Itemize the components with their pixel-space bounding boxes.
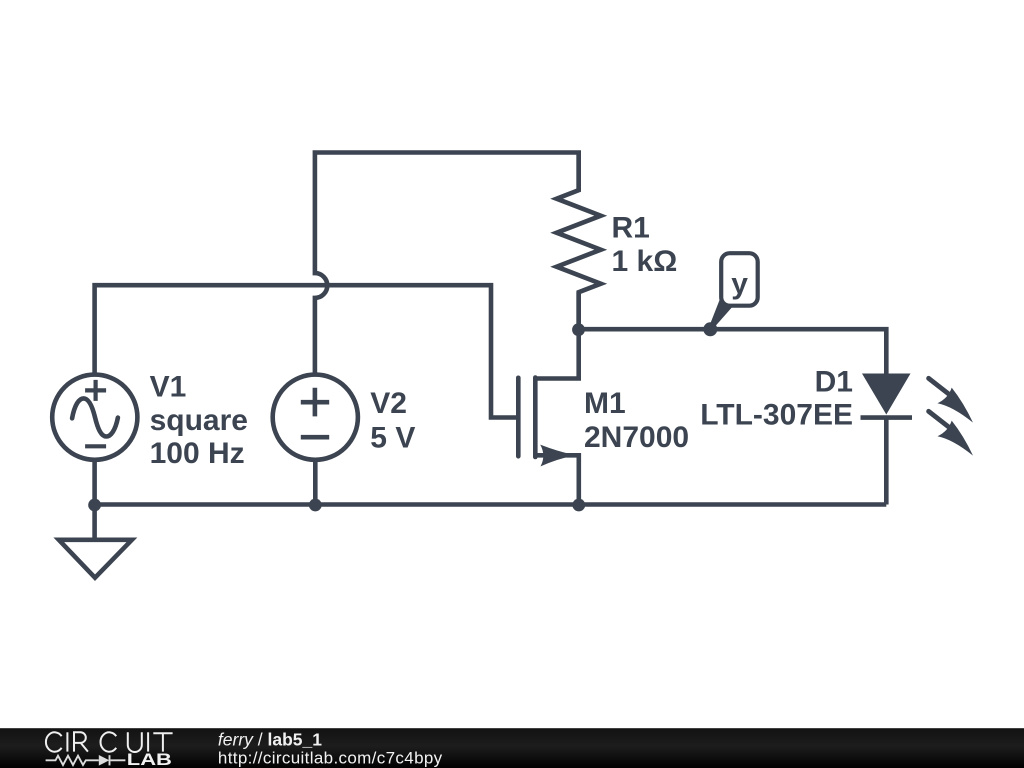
LED D1 triangle <box>862 374 911 415</box>
svg-text:5 V: 5 V <box>370 421 415 454</box>
svg-text:ferry / lab5_1: ferry / lab5_1 <box>218 729 322 749</box>
LED D1 cathode bar <box>861 415 913 420</box>
node flag y <box>709 253 758 330</box>
ground <box>59 540 132 578</box>
transistor M1 channel bar <box>533 378 538 458</box>
node junction V1 / ground rail <box>88 499 101 512</box>
LED D1 light arrow 1 <box>929 378 973 422</box>
wire M1 source lead <box>535 455 579 504</box>
V1 minus sign <box>85 444 106 448</box>
svg-text:M1: M1 <box>584 387 626 420</box>
node junction R1 / M1 drain / node y <box>572 323 585 336</box>
transistor M1 gate bar <box>516 378 521 457</box>
svg-text:100 Hz: 100 Hz <box>150 437 245 470</box>
voltage source V2 circle <box>273 375 358 460</box>
V1 sine symbol <box>72 398 118 436</box>
svg-text:D1: D1 <box>815 366 853 399</box>
node junction V2 / ground rail <box>309 499 322 512</box>
svg-text:LTL-307EE: LTL-307EE <box>700 398 853 431</box>
voltage source V1 circle <box>52 375 137 460</box>
node junction M1 source / ground rail <box>572 499 585 512</box>
svg-text:1 kΩ: 1 kΩ <box>612 245 678 278</box>
node junction flag y pointer <box>703 322 717 336</box>
transistor M1 source arrow <box>540 445 572 467</box>
svg-text:2N7000: 2N7000 <box>584 421 689 454</box>
wire R1 bottom / M1 drain lead <box>535 292 578 378</box>
LED D1 light arrow 2 <box>929 411 973 455</box>
wire top net: R1 top to V2 plus terminal, with hop over gate wire <box>315 153 579 374</box>
svg-text:square: square <box>150 404 248 437</box>
wire node y to LED D1 anode <box>579 329 887 373</box>
wire ground rail <box>95 502 887 507</box>
V2 minus sign <box>301 435 329 440</box>
logo diode triangle <box>99 755 110 766</box>
wire V2 bottom lead <box>313 462 318 505</box>
resistor R1 <box>557 153 601 329</box>
svg-text:R1: R1 <box>612 211 650 244</box>
wire gate net: V1 plus terminal to M1 gate <box>95 285 519 417</box>
wire LED D1 cathode lead <box>884 418 889 505</box>
svg-text:V1: V1 <box>150 371 187 404</box>
V2 plus sign <box>301 388 329 417</box>
svg-text:LAB: LAB <box>127 750 172 768</box>
svg-text:V2: V2 <box>370 387 407 420</box>
logo resistor-diode squiggle <box>46 755 126 765</box>
svg-text:http://circuitlab.com/c7c4bpy: http://circuitlab.com/c7c4bpy <box>218 749 443 768</box>
wire V1 bottom to ground <box>92 462 97 540</box>
V1 plus sign <box>85 380 106 401</box>
svg-text:y: y <box>731 268 748 301</box>
CircuitLab watermark bar <box>0 728 1024 768</box>
logo wordmark CIRCUIT <box>46 732 173 752</box>
